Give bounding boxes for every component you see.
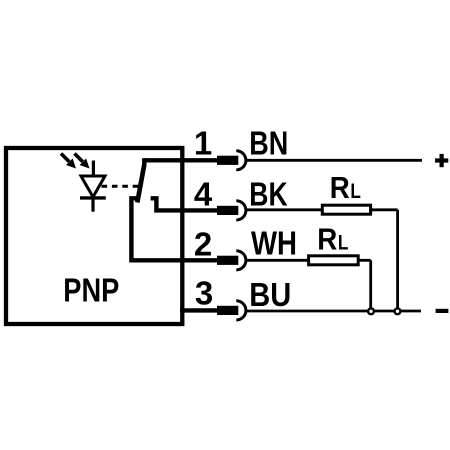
wire RL1 to drop <box>371 208 398 211</box>
wire BK to resistor RL1 <box>246 208 322 211</box>
photodiode D1 anode lead <box>92 161 95 178</box>
connector socket 2 <box>236 251 246 270</box>
connector socket 3 <box>236 301 246 320</box>
plus terminal <box>435 154 448 167</box>
connector pin 1 <box>217 156 238 165</box>
wire 3 from box to connector pin 3 <box>180 308 218 312</box>
switch S1 lever <box>137 165 144 203</box>
connector socket 1 <box>236 151 246 170</box>
connector pin 4 <box>217 206 238 215</box>
svg-text:PNP: PNP <box>63 271 119 308</box>
connector pin 3 <box>217 306 238 315</box>
wire 1 from switch pivot to connector pin 1 <box>144 158 217 162</box>
svg-text:L: L <box>350 180 361 203</box>
connector pin 2 <box>217 256 238 265</box>
svg-text:R: R <box>317 221 337 256</box>
wire BN to plus terminal <box>246 159 422 162</box>
junction dot RL2 on minus rail <box>368 308 374 314</box>
svg-text:WH: WH <box>251 224 297 261</box>
svg-text:R: R <box>330 170 350 205</box>
drop wire RL2 to minus rail <box>369 260 372 309</box>
sensor body box <box>6 148 182 324</box>
switch S1 output contact to wire 4 <box>151 198 218 210</box>
junction dot RL1 on minus rail <box>395 308 401 314</box>
wire WH to resistor RL2 <box>246 259 309 262</box>
photodiode D1 light arrow 1 <box>61 154 76 169</box>
minus terminal <box>436 309 449 313</box>
switch S1 common contact to wire 2 <box>131 198 217 260</box>
photodiode D1 cathode bar <box>80 196 106 199</box>
svg-text:4: 4 <box>194 176 213 213</box>
photodiode D1 light arrow 2 <box>75 154 90 169</box>
svg-text:BU: BU <box>249 276 291 313</box>
photodiode D1 triangle <box>81 176 105 197</box>
wire BU minus rail <box>246 310 421 313</box>
svg-text:L: L <box>338 231 349 254</box>
svg-text:BN: BN <box>249 125 288 162</box>
resistor RL2 <box>309 256 359 265</box>
svg-text:BK: BK <box>249 176 287 213</box>
connector socket 4 <box>236 201 246 220</box>
svg-text:1: 1 <box>194 124 212 161</box>
photodiode D1 cathode lead <box>91 198 94 212</box>
dashed actuation link <box>102 185 140 188</box>
wire RL2 to drop <box>358 259 371 262</box>
resistor RL1 <box>322 205 370 214</box>
svg-text:2: 2 <box>194 226 212 263</box>
svg-text:3: 3 <box>195 275 213 312</box>
drop wire RL1 to minus rail <box>396 210 399 309</box>
switch S1 pivot stub <box>142 158 146 166</box>
